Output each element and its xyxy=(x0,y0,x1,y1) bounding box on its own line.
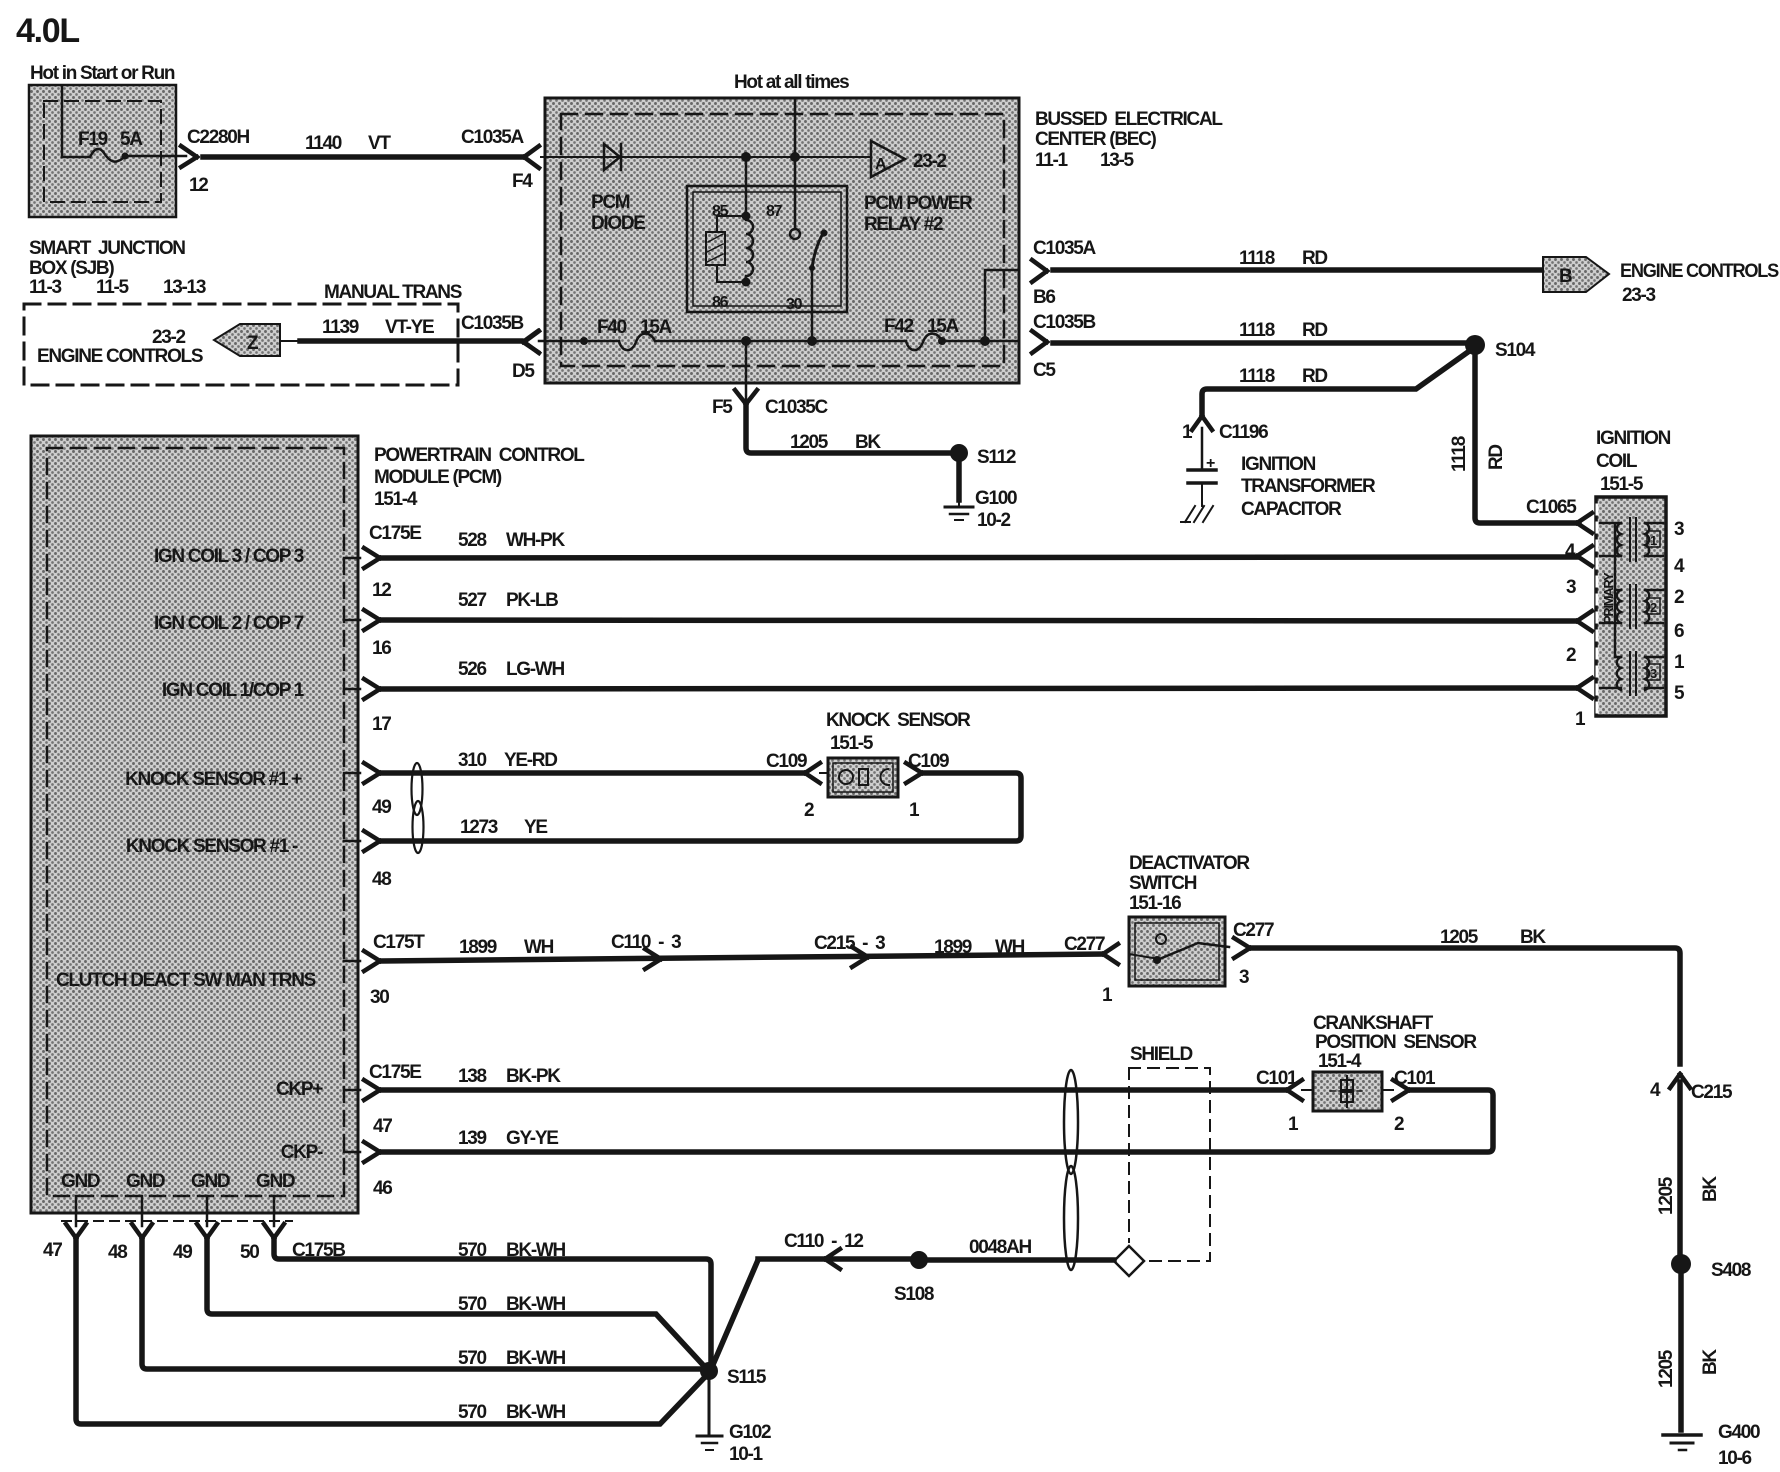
splice S115 xyxy=(700,1362,718,1380)
wire 526 LG-WH xyxy=(381,688,1577,689)
svg-text:3: 3 xyxy=(1674,519,1684,540)
svg-text:13-5: 13-5 xyxy=(1100,150,1135,171)
wire 1205 BK to S112 xyxy=(746,404,950,453)
svg-text:COIL: COIL xyxy=(1596,451,1638,472)
svg-text:C1196: C1196 xyxy=(1219,422,1268,443)
svg-text:LG-WH: LG-WH xyxy=(506,659,564,680)
svg-text:VT-YE: VT-YE xyxy=(385,317,434,338)
svg-text:IGN COIL 3 / COP 3: IGN COIL 3 / COP 3 xyxy=(154,546,304,567)
connector C175E pin 17 xyxy=(344,688,360,691)
svg-text:F19: F19 xyxy=(78,129,108,150)
svg-text:570: 570 xyxy=(458,1402,487,1423)
svg-text:1205: 1205 xyxy=(790,432,829,453)
svg-text:RD: RD xyxy=(1302,320,1327,341)
svg-text:17: 17 xyxy=(372,714,391,735)
capacitor ignition transformer capacitor xyxy=(1201,428,1204,469)
svg-text:BOX (SJB): BOX (SJB) xyxy=(29,258,114,279)
off-page arrow Z xyxy=(214,324,280,356)
svg-text:F40: F40 xyxy=(597,317,627,338)
transformer 1 xyxy=(1617,523,1621,556)
ground G102 xyxy=(708,1380,711,1433)
svg-text:S112: S112 xyxy=(977,447,1016,468)
svg-text:BK-WH: BK-WH xyxy=(506,1348,566,1369)
svg-text:POSITION SENSOR: POSITION SENSOR xyxy=(1315,1032,1477,1053)
svg-text:ENGINE CONTROLS: ENGINE CONTROLS xyxy=(1620,261,1779,282)
svg-text:C1035A: C1035A xyxy=(1033,238,1096,259)
svg-text:S104: S104 xyxy=(1495,340,1536,361)
fuse F19 5A xyxy=(62,86,90,157)
svg-text:16: 16 xyxy=(372,638,391,659)
svg-text:C215 - 3: C215 - 3 xyxy=(814,933,885,954)
svg-text:S408: S408 xyxy=(1711,1260,1751,1281)
svg-text:GND: GND xyxy=(61,1171,100,1192)
svg-text:GY-YE: GY-YE xyxy=(506,1128,558,1149)
connector C175B pin 48 xyxy=(141,1196,144,1226)
wire 528 WH-PK xyxy=(381,557,1577,558)
svg-text:MODULE (PCM): MODULE (PCM) xyxy=(374,467,502,488)
wire fused feed row xyxy=(539,340,619,343)
svg-text:IGNITION: IGNITION xyxy=(1596,428,1671,449)
wire 138 BK-PK xyxy=(381,1087,1287,1093)
svg-text:570: 570 xyxy=(458,1294,487,1315)
svg-text:IGNITION: IGNITION xyxy=(1241,454,1316,475)
engine controls dashed box xyxy=(24,304,458,385)
splice S112 xyxy=(950,444,968,462)
svg-text:MANUAL TRANS: MANUAL TRANS xyxy=(324,282,462,303)
svg-text:KNOCK SENSOR #1 -: KNOCK SENSOR #1 - xyxy=(126,836,298,857)
svg-text:48: 48 xyxy=(108,1242,127,1263)
svg-text:85: 85 xyxy=(712,203,729,220)
svg-text:47: 47 xyxy=(43,1240,62,1261)
svg-text:C109: C109 xyxy=(908,751,949,772)
connector C110-3 arrow xyxy=(645,949,661,969)
svg-text:PCM: PCM xyxy=(591,192,630,213)
svg-text:TRANSFORMER: TRANSFORMER xyxy=(1241,476,1376,497)
svg-text:C175E: C175E xyxy=(369,1062,421,1083)
svg-text:CRANKSHAFT: CRANKSHAFT xyxy=(1313,1013,1434,1034)
wire 1139 VT-YE xyxy=(280,340,300,342)
relay switch arm 30 xyxy=(812,232,824,268)
svg-text:CLUTCH DEACT SW MAN TRNS: CLUTCH DEACT SW MAN TRNS xyxy=(56,970,316,991)
svg-text:151-16: 151-16 xyxy=(1129,893,1181,914)
wire coil feed drop xyxy=(745,157,748,216)
connector C215 pin 4 arrow xyxy=(1670,1074,1690,1088)
connector C1196 pin 1 xyxy=(1192,416,1212,430)
svg-text:C110 - 3: C110 - 3 xyxy=(611,932,681,953)
svg-text:151-4: 151-4 xyxy=(1318,1051,1362,1072)
wire 527 PK-LB xyxy=(381,620,1577,621)
svg-text:C175E: C175E xyxy=(369,523,421,544)
fuse F42 15A xyxy=(906,334,942,351)
svg-text:Z: Z xyxy=(247,333,259,354)
svg-text:1118: 1118 xyxy=(1239,320,1275,341)
svg-text:1118: 1118 xyxy=(1449,436,1470,472)
svg-text:PCM POWER: PCM POWER xyxy=(864,193,973,214)
svg-text:0048AH: 0048AH xyxy=(969,1237,1031,1258)
svg-text:C110 - 12: C110 - 12 xyxy=(784,1231,863,1252)
svg-text:Hot at all times: Hot at all times xyxy=(734,72,849,93)
svg-text:BK: BK xyxy=(855,432,881,453)
wire 570 BK-WH pin49 xyxy=(207,1240,704,1366)
svg-text:B6: B6 xyxy=(1033,287,1055,308)
svg-text:11-1: 11-1 xyxy=(1035,150,1069,171)
svg-text:C1035A: C1035A xyxy=(461,127,524,148)
svg-text:BUSSED ELECTRICAL: BUSSED ELECTRICAL xyxy=(1035,109,1223,130)
node diode/coil junction xyxy=(741,152,751,162)
svg-text:KNOCK SENSOR #1 +: KNOCK SENSOR #1 + xyxy=(125,769,302,790)
svg-text:3: 3 xyxy=(1239,967,1249,988)
svg-text:151-4: 151-4 xyxy=(374,489,418,510)
connector C215-3 arrow xyxy=(852,947,868,967)
connector C101 pin 2 arrow xyxy=(1393,1080,1409,1100)
shield loop symbol xyxy=(1064,1070,1078,1174)
wire 1205 BK to G400 xyxy=(1678,1274,1684,1430)
svg-text:RD: RD xyxy=(1302,366,1327,387)
svg-text:S108: S108 xyxy=(894,1284,934,1305)
connector C175E pin 16 xyxy=(344,619,360,622)
svg-text:D5: D5 xyxy=(512,361,535,382)
svg-text:POWERTRAIN CONTROL: POWERTRAIN CONTROL xyxy=(374,445,585,466)
connector C175T pin 30 xyxy=(344,960,360,963)
wire 1899 WH xyxy=(381,954,1103,961)
svg-text:BK-WH: BK-WH xyxy=(506,1294,566,1315)
connector C109 pin 2 arrow xyxy=(805,763,820,783)
svg-text:C2280H: C2280H xyxy=(187,127,249,148)
svg-text:G102: G102 xyxy=(729,1422,771,1443)
svg-text:151-5: 151-5 xyxy=(1600,474,1644,495)
svg-text:Hot in Start or Run: Hot in Start or Run xyxy=(30,63,175,84)
svg-text:1205: 1205 xyxy=(1656,1349,1677,1388)
svg-text:RELAY #2: RELAY #2 xyxy=(864,214,943,235)
svg-text:GND: GND xyxy=(256,1171,295,1192)
svg-text:49: 49 xyxy=(173,1242,192,1263)
svg-text:2: 2 xyxy=(1566,645,1576,666)
connector C1035A pin F4 arrow xyxy=(524,146,539,168)
connector C101 pin 1 arrow xyxy=(1287,1080,1302,1100)
svg-text:1205: 1205 xyxy=(1656,1176,1677,1215)
svg-text:SMART JUNCTION: SMART JUNCTION xyxy=(29,238,185,259)
svg-text:IGN COIL 1/COP 1: IGN COIL 1/COP 1 xyxy=(162,680,305,701)
connector C175E pin 46 xyxy=(344,1151,360,1154)
connector C1035A pin B6 arrow xyxy=(1032,260,1047,282)
relay resistor xyxy=(717,216,746,282)
BEC box xyxy=(545,98,1019,383)
svg-text:526: 526 xyxy=(458,659,487,680)
ground G400 xyxy=(1663,1433,1701,1437)
svg-text:C109: C109 xyxy=(766,751,807,772)
svg-text:C277: C277 xyxy=(1064,934,1105,955)
svg-text:C1035B: C1035B xyxy=(461,313,523,334)
relay coil xyxy=(742,212,751,221)
svg-text:DIODE: DIODE xyxy=(591,213,645,234)
svg-text:RD: RD xyxy=(1302,248,1327,269)
svg-text:48: 48 xyxy=(372,869,391,890)
svg-text:23-2: 23-2 xyxy=(913,151,947,172)
connector C109 pin 1 arrow xyxy=(906,763,922,783)
svg-text:47: 47 xyxy=(373,1116,392,1137)
svg-text:YE-RD: YE-RD xyxy=(504,750,557,771)
svg-text:A: A xyxy=(875,156,887,173)
svg-text:1205: 1205 xyxy=(1440,927,1479,948)
svg-text:1118: 1118 xyxy=(1239,366,1275,387)
svg-text:IGN COIL 2 / COP 7: IGN COIL 2 / COP 7 xyxy=(154,613,304,634)
wire coil B+ bus xyxy=(1600,523,1621,657)
svg-text:3: 3 xyxy=(1566,577,1576,598)
PCM ground pins dashed strip xyxy=(62,1220,292,1222)
svg-text:23-2: 23-2 xyxy=(152,327,186,348)
wire diagonal to S115 xyxy=(712,1260,758,1367)
connector C175B pin 50 xyxy=(273,1196,276,1226)
svg-text:C277: C277 xyxy=(1233,920,1274,941)
svg-text:570: 570 xyxy=(458,1348,487,1369)
svg-text:WH: WH xyxy=(524,937,554,958)
svg-text:DEACTIVATOR: DEACTIVATOR xyxy=(1129,853,1250,874)
wire 1118 RD S104 to coil xyxy=(1475,353,1579,523)
node diode/87 junction xyxy=(790,152,800,162)
splice S108 xyxy=(910,1251,928,1269)
svg-text:C175T: C175T xyxy=(373,932,425,953)
twisted pair symbol xyxy=(412,763,423,815)
svg-text:1118: 1118 xyxy=(1239,248,1275,269)
svg-text:570: 570 xyxy=(458,1240,487,1261)
wire B6 riser xyxy=(985,270,1019,341)
svg-text:BK-WH: BK-WH xyxy=(506,1402,566,1423)
svg-text:138: 138 xyxy=(458,1066,487,1087)
svg-text:C101: C101 xyxy=(1394,1068,1436,1089)
svg-text:G400: G400 xyxy=(1718,1422,1760,1443)
svg-text:VT: VT xyxy=(368,133,391,154)
svg-text:15A: 15A xyxy=(927,316,960,337)
svg-text:YE: YE xyxy=(524,817,547,838)
svg-text:87: 87 xyxy=(766,203,783,220)
wire to C5 xyxy=(942,340,1019,343)
svg-text:30: 30 xyxy=(370,987,389,1008)
svg-text:50: 50 xyxy=(240,1242,259,1263)
svg-text:C101: C101 xyxy=(1256,1068,1298,1089)
svg-text:G100: G100 xyxy=(975,488,1017,509)
wire hot-at-all-times drop xyxy=(794,98,797,229)
svg-text:2: 2 xyxy=(1674,587,1684,608)
svg-text:151-5: 151-5 xyxy=(830,733,874,754)
connector C175B pin 47 xyxy=(75,1196,78,1226)
connector C175E pin 12 xyxy=(344,557,360,560)
svg-text:139: 139 xyxy=(458,1128,487,1149)
off-page arrow B xyxy=(1543,257,1609,292)
PCM powertrain control module box xyxy=(31,436,358,1213)
wire 1118 RD to capacitor xyxy=(1202,352,1468,417)
svg-text:12: 12 xyxy=(189,175,208,196)
wire between fuses xyxy=(655,340,906,343)
svg-text:CKP+: CKP+ xyxy=(276,1079,323,1100)
wire 570 BK-WH pin50 xyxy=(274,1240,711,1366)
relay terminal 87 xyxy=(790,229,800,239)
ground chassis for capacitor xyxy=(1181,506,1213,522)
svg-text:RD: RD xyxy=(1486,445,1507,470)
connector C2280H arrow pin 12 xyxy=(181,146,197,167)
svg-text:B: B xyxy=(1559,266,1572,287)
svg-text:SHIELD: SHIELD xyxy=(1130,1044,1192,1065)
svg-text:BK: BK xyxy=(1520,927,1546,948)
svg-text:86: 86 xyxy=(712,294,729,311)
connector C175E pin 47 xyxy=(344,1089,360,1092)
connector C1065 arrow xyxy=(1577,513,1592,533)
svg-text:BK: BK xyxy=(1700,1176,1721,1202)
svg-text:4.0L: 4.0L xyxy=(16,12,79,50)
svg-text:2: 2 xyxy=(804,800,814,821)
transformer 3 xyxy=(1617,657,1621,690)
svg-text:30: 30 xyxy=(786,296,803,313)
svg-text:5A: 5A xyxy=(120,129,143,150)
svg-text:C1065: C1065 xyxy=(1526,497,1577,518)
svg-text:C5: C5 xyxy=(1033,360,1056,381)
wire 1205 BK to S408 xyxy=(1677,1082,1683,1255)
svg-text:46: 46 xyxy=(373,1178,392,1199)
svg-text:KNOCK SENSOR: KNOCK SENSOR xyxy=(826,710,971,731)
svg-text:PK-LB: PK-LB xyxy=(506,590,558,611)
off-page triangle A 23-2 xyxy=(871,141,905,177)
svg-text:10-2: 10-2 xyxy=(977,510,1011,531)
wire 1118 RD to B xyxy=(1053,267,1541,273)
svg-text:S115: S115 xyxy=(727,1367,767,1388)
svg-text:10-6: 10-6 xyxy=(1718,1448,1752,1469)
svg-text:BK-PK: BK-PK xyxy=(506,1066,561,1087)
svg-text:GND: GND xyxy=(191,1171,230,1192)
connector C1035B pin C5 arrow xyxy=(1032,331,1047,353)
connector C1035B pin D5 arrow xyxy=(524,331,539,353)
svg-text:F4: F4 xyxy=(512,171,533,192)
svg-text:6: 6 xyxy=(1674,621,1684,642)
svg-text:527: 527 xyxy=(458,590,487,611)
connector C277 pin 1 arrow xyxy=(1103,944,1118,964)
svg-text:15A: 15A xyxy=(640,317,673,338)
SJB power box xyxy=(29,85,176,217)
wire 1273 YE loop xyxy=(381,773,1021,841)
wire 1140 VT xyxy=(203,154,521,160)
svg-text:1899: 1899 xyxy=(459,937,497,958)
svg-text:1273: 1273 xyxy=(460,817,498,838)
wire 0048AH xyxy=(928,1257,1114,1263)
svg-text:12: 12 xyxy=(372,580,391,601)
svg-text:49: 49 xyxy=(372,797,391,818)
svg-text:SWITCH: SWITCH xyxy=(1129,873,1197,894)
svg-text:F5: F5 xyxy=(712,397,733,418)
wire 1118 RD to S104 xyxy=(1053,340,1466,346)
PCM diode xyxy=(604,144,621,170)
svg-text:310: 310 xyxy=(458,750,487,771)
connector arrows at coil pins 4 6 5 xyxy=(1577,546,1592,566)
svg-text:10-1: 10-1 xyxy=(729,1444,764,1465)
splice S408 xyxy=(1671,1254,1691,1274)
fuse F40 15A xyxy=(619,334,655,351)
connector C277 pin 3 arrow xyxy=(1234,938,1250,958)
wire 139 GY-YE loop xyxy=(1382,1089,1393,1091)
connector C175E pin 49 xyxy=(344,772,360,775)
svg-text:2: 2 xyxy=(1394,1114,1404,1135)
svg-text:F42: F42 xyxy=(884,316,914,337)
svg-text:11-5: 11-5 xyxy=(96,277,130,298)
shield drain diamond xyxy=(1114,1246,1144,1276)
wire C110-12 xyxy=(758,1256,910,1262)
svg-text:C1035B: C1035B xyxy=(1033,312,1095,333)
svg-text:1139: 1139 xyxy=(322,317,359,338)
svg-text:BK: BK xyxy=(1700,1349,1721,1375)
connector C1035C pin F5 xyxy=(745,345,748,404)
svg-text:CENTER (BEC): CENTER (BEC) xyxy=(1035,129,1157,150)
svg-text:23-3: 23-3 xyxy=(1622,285,1656,306)
wire 310 YE-RD xyxy=(381,770,805,776)
connector C175B pin 49 xyxy=(206,1196,209,1226)
svg-text:528: 528 xyxy=(458,530,487,551)
ground G100 xyxy=(956,462,962,500)
svg-text:C1035C: C1035C xyxy=(765,397,828,418)
wire fuse to C2280H xyxy=(125,155,186,158)
svg-text:GND: GND xyxy=(126,1171,165,1192)
wire diode feed xyxy=(541,156,869,158)
connector C175E pin 48 xyxy=(344,840,360,843)
svg-text:11-3: 11-3 xyxy=(29,277,62,298)
wire 570 BK-WH pin48 xyxy=(142,1240,702,1369)
relay PCM POWER RELAY #2 xyxy=(687,186,847,312)
wire 570 BK-WH pin47 xyxy=(76,1240,705,1424)
wire 1205 BK right xyxy=(1251,948,1680,1064)
svg-text:C215: C215 xyxy=(1691,1082,1733,1103)
svg-text:1899: 1899 xyxy=(934,937,972,958)
transformer 2 xyxy=(1617,590,1621,623)
svg-text:13-13: 13-13 xyxy=(163,277,206,298)
svg-text:WH: WH xyxy=(995,937,1025,958)
svg-text:CKP-: CKP- xyxy=(281,1142,323,1163)
svg-text:WH-PK: WH-PK xyxy=(506,530,565,551)
splice S104 xyxy=(1465,335,1485,355)
svg-text:ENGINE CONTROLS: ENGINE CONTROLS xyxy=(37,346,203,367)
svg-text:1140: 1140 xyxy=(305,133,342,154)
svg-text:BK-WH: BK-WH xyxy=(506,1240,566,1261)
svg-text:CAPACITOR: CAPACITOR xyxy=(1241,499,1342,520)
